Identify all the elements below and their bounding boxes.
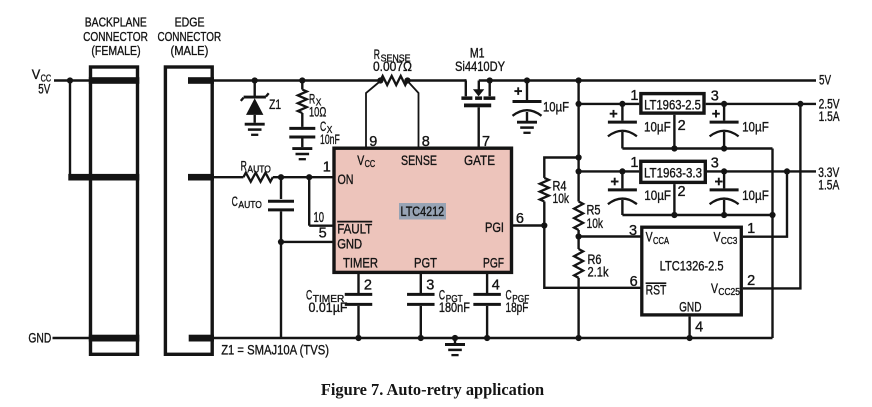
wire 5V rail mid <box>408 79 467 81</box>
wire CX-gnd <box>301 139 303 148</box>
svg-text:2: 2 <box>678 118 686 134</box>
svg-text:5V: 5V <box>819 71 831 87</box>
caption figure 7 <box>321 380 545 399</box>
backplane connector (female) label <box>83 15 148 59</box>
svg-text:ON: ON <box>338 171 354 187</box>
svg-text:0.01µF: 0.01µF <box>309 299 348 315</box>
svg-text:AUTO: AUTO <box>238 199 262 211</box>
svg-text:180nF: 180nF <box>439 299 470 315</box>
backplane connector pin GND <box>89 335 140 342</box>
resistor R4 <box>540 178 570 207</box>
wire pin5 down to ground rail <box>280 242 282 338</box>
svg-text:CONNECTOR: CONNECTOR <box>157 29 221 44</box>
svg-text:CC3: CC3 <box>721 235 738 247</box>
svg-text:BACKPLANE: BACKPLANE <box>85 15 147 30</box>
junction VCC3 tap <box>784 168 790 174</box>
U2 pin number 1 <box>630 88 638 104</box>
U2 pin number 3 <box>711 89 719 105</box>
svg-text:PGF: PGF <box>483 254 504 270</box>
svg-text:5: 5 <box>319 226 327 242</box>
svg-text:3: 3 <box>426 278 434 294</box>
wire RAUTO to ON pin 1 <box>273 176 334 178</box>
junction RSENSE right <box>404 77 410 83</box>
wire CAUTO lead <box>280 177 282 199</box>
U1 pin label PGI <box>485 219 504 235</box>
wire R4 to PGI <box>543 202 545 226</box>
junction R6 ground <box>576 335 582 341</box>
junction FAULT tie <box>306 174 312 180</box>
svg-text:4: 4 <box>695 320 703 336</box>
wire 5V to U2 pin 1 <box>579 103 640 105</box>
svg-text:1: 1 <box>630 88 638 104</box>
svg-text:RST: RST <box>646 282 667 298</box>
svg-text:2: 2 <box>747 273 755 289</box>
wire VCC input <box>54 79 90 81</box>
wire GND pin 5 <box>281 241 334 243</box>
junction M1 drain <box>487 77 493 83</box>
U1 pin number 5 <box>319 226 327 242</box>
comparator U4 LTC1326-2.5 body <box>642 227 742 315</box>
capacitor CPGF <box>473 287 529 316</box>
U4 pin label GND <box>679 298 701 314</box>
svg-text:10: 10 <box>314 210 325 226</box>
resistor R5 <box>574 202 604 232</box>
U1 pin number 3 <box>426 278 434 294</box>
U1 pin label GND <box>337 236 362 252</box>
wire CAUTO to GND pin 5 <box>280 211 282 242</box>
U1 pin label VCC <box>357 152 375 170</box>
svg-text:SENSE: SENSE <box>401 152 437 168</box>
U4 pin number 4 <box>695 320 703 336</box>
U4 pin number 6 <box>630 274 638 290</box>
svg-text:PGI: PGI <box>485 219 504 235</box>
svg-text:10µF: 10µF <box>644 187 671 203</box>
svg-text:R: R <box>241 157 247 173</box>
U1 pin number 9 <box>369 134 377 150</box>
node VCC label <box>32 66 52 96</box>
wire U4 VCC3 from 3.3V <box>743 171 787 236</box>
junction CPGT <box>418 335 424 341</box>
wire PGF pin 4 stub <box>486 272 488 293</box>
note Z1 type <box>221 341 329 357</box>
wire VCCA <box>579 235 641 237</box>
junction ground trunk top <box>769 212 775 218</box>
wire U4 VCC25 from 2.5V <box>743 104 800 289</box>
wire RX lead <box>301 81 303 90</box>
zener Z1 <box>241 81 281 123</box>
svg-text:10k: 10k <box>553 190 570 206</box>
junction C4 top <box>619 168 625 174</box>
svg-text:10k: 10k <box>587 215 604 231</box>
ground main <box>445 345 465 356</box>
junction RX top <box>299 77 305 83</box>
wire CTIMER to rail <box>357 306 359 338</box>
svg-text:2: 2 <box>364 278 372 294</box>
junction CPGF <box>484 335 490 341</box>
wire kelvin SENSE pin 8 <box>408 81 419 148</box>
capacitor CX <box>289 118 340 147</box>
U1 pin number 10 <box>314 210 325 226</box>
capacitor C4 10uF input <box>608 171 671 215</box>
resistor RAUTO <box>241 157 273 181</box>
junction PGI <box>541 222 547 228</box>
wire R4 top bend <box>544 158 578 178</box>
svg-text:18pF: 18pF <box>506 299 529 315</box>
wire 5V to U3 pin 1 <box>579 170 640 172</box>
wire U2 ground run <box>622 147 772 149</box>
U3 pin number 3 <box>711 156 719 172</box>
resistor RSENSE <box>373 46 412 85</box>
svg-text:GND: GND <box>337 236 362 252</box>
svg-text:CC: CC <box>365 158 376 170</box>
svg-text:GATE: GATE <box>464 152 495 168</box>
ground CX <box>292 149 312 160</box>
wire PGI to RST bend <box>544 226 641 288</box>
svg-text:1.5A: 1.5A <box>818 176 839 192</box>
node GND label <box>28 330 51 346</box>
svg-text:3: 3 <box>629 223 637 239</box>
svg-text:9: 9 <box>369 134 377 150</box>
svg-text:3: 3 <box>711 156 719 172</box>
wire U2 pin 2 stub <box>673 115 675 149</box>
junction C2 top <box>619 101 625 107</box>
junction U3 pin 2 gnd <box>671 212 677 218</box>
capacitor CTIMER <box>306 287 372 316</box>
wire 5V rail right <box>479 79 816 81</box>
svg-text:7: 7 <box>482 134 490 150</box>
U4 pin label RST <box>646 282 667 298</box>
svg-text:10nF: 10nF <box>320 131 340 147</box>
svg-text:1: 1 <box>747 221 755 237</box>
wire ground stem <box>454 338 456 345</box>
U1 pin label ON <box>338 171 354 187</box>
capacitor C3 10uF output <box>710 104 769 149</box>
wire ground trunk <box>771 149 773 339</box>
resistor R6 <box>574 249 609 280</box>
wire U3 pin 2 stub <box>673 184 675 215</box>
svg-text:3: 3 <box>711 89 719 105</box>
wire VCC loop down to lower pin <box>69 81 71 178</box>
U2 pin number 2 <box>678 118 686 134</box>
svg-text:10µF: 10µF <box>543 99 569 115</box>
U1 pin number 4 <box>492 278 500 294</box>
U3 pin number 2 <box>678 184 686 200</box>
transistor M1 Si4410DY <box>455 45 506 148</box>
svg-text:(MALE): (MALE) <box>171 43 209 58</box>
svg-text:V: V <box>711 280 718 296</box>
svg-text:CONNECTOR: CONNECTOR <box>83 29 148 44</box>
junction GND pin 5 <box>278 239 284 245</box>
svg-text:FAULT: FAULT <box>337 221 372 237</box>
wire FAULT pin 10 <box>309 177 334 226</box>
backplane connector pin VCC <box>89 77 140 84</box>
svg-text:1.5A: 1.5A <box>819 108 840 124</box>
edge connector pin VCC <box>188 77 214 84</box>
wire CPGT to rail <box>420 306 422 338</box>
svg-text:V: V <box>646 229 653 245</box>
wire R5 to node <box>577 230 579 249</box>
wire U4 pin 4 stub <box>688 317 690 338</box>
wire R6 to ground rail <box>577 278 579 338</box>
backplane connector J1 body <box>91 67 138 354</box>
svg-text:10µF: 10µF <box>742 119 769 135</box>
svg-text:LTC1326-2.5: LTC1326-2.5 <box>660 258 724 274</box>
U4 pin number 2 <box>747 273 755 289</box>
svg-text:6: 6 <box>630 274 638 290</box>
U1 pin label GATE <box>464 152 495 168</box>
capacitor CPGT <box>407 287 470 316</box>
node 5V label <box>819 71 831 87</box>
wire edge connector to RAUTO <box>213 176 243 178</box>
edge connector (male) label <box>157 15 221 59</box>
ground Z1 <box>245 124 265 135</box>
svg-text:GND: GND <box>28 330 51 346</box>
junction VCC25 tap <box>797 101 803 107</box>
junction U2 pin 2 gnd <box>671 145 677 151</box>
backplane connector pin sense <box>68 174 139 181</box>
U1 pin number 7 <box>482 134 490 150</box>
svg-text:Z1: Z1 <box>269 96 281 112</box>
ground C1 <box>517 122 537 133</box>
svg-text:V: V <box>357 152 364 168</box>
svg-text:Si4410DY: Si4410DY <box>455 58 506 74</box>
svg-text:5V: 5V <box>38 80 50 96</box>
junction Z1 top <box>252 77 258 83</box>
junction R4 top <box>576 154 582 160</box>
wire TIMER pin 2 stub <box>357 272 359 293</box>
wire PGT pin 3 stub <box>420 272 422 293</box>
U3 pin number 1 <box>630 155 638 171</box>
svg-text:GND: GND <box>679 298 701 314</box>
op-amp U1 LTC4212 body <box>334 148 512 272</box>
U1 pin label PGT <box>414 254 437 270</box>
junction feed reg3.3 <box>576 168 582 174</box>
U4 pin number 1 <box>747 221 755 237</box>
svg-text:2.1k: 2.1k <box>588 264 610 280</box>
U4 pin label VCC3 <box>714 229 738 247</box>
svg-text:TIMER: TIMER <box>343 254 378 270</box>
wire PGI pin 6 <box>512 224 545 226</box>
svg-text:Figure 7. Auto-retry applicati: Figure 7. Auto-retry application <box>321 380 545 399</box>
svg-text:0.007Ω: 0.007Ω <box>373 58 412 74</box>
svg-text:LT1963-3.3: LT1963-3.3 <box>644 165 702 181</box>
svg-text:10µF: 10µF <box>742 187 769 203</box>
junction CTIMER <box>355 335 361 341</box>
capacitor CAUTO <box>232 193 294 211</box>
svg-text:CCA: CCA <box>653 235 669 247</box>
regulator U3 LT1963-3.3 <box>641 161 706 182</box>
junction CAUTO top <box>278 174 284 180</box>
wire U2 output <box>706 103 816 105</box>
svg-text:Z1 = SMAJ10A (TVS): Z1 = SMAJ10A (TVS) <box>221 341 329 357</box>
svg-text:4: 4 <box>492 278 500 294</box>
wire GND input <box>53 337 91 339</box>
wire 5V rail left <box>213 79 380 81</box>
svg-text:10µF: 10µF <box>644 119 671 135</box>
junction RSENSE left <box>377 77 383 83</box>
node 2.5V label <box>819 95 840 124</box>
svg-text:CC25: CC25 <box>718 286 740 298</box>
U1 pin label SENSE <box>401 152 437 168</box>
U1 pin label TIMER <box>343 254 378 270</box>
junction U4 ground <box>687 335 693 341</box>
junction VCC <box>67 77 73 83</box>
svg-text:2: 2 <box>678 184 686 200</box>
svg-text:LT1963-2.5: LT1963-2.5 <box>644 97 701 113</box>
U1 pin number 2 <box>364 278 372 294</box>
junction 5V feed <box>576 77 582 83</box>
U1 pin number 1 <box>323 160 331 176</box>
regulator U2 LT1963-2.5 <box>641 94 704 114</box>
wire U3 ground run <box>622 214 772 216</box>
U1 pin number 8 <box>422 134 430 150</box>
junction VCCA node <box>576 233 582 239</box>
edge connector pin GND <box>189 335 214 342</box>
capacitor C1 10uF <box>513 81 570 123</box>
resistor RX <box>298 90 327 120</box>
wire 5V feed down <box>577 81 579 202</box>
U4 pin label VCCA <box>646 229 669 247</box>
wire RX-CX <box>301 113 303 127</box>
U1 name highlight <box>399 203 446 220</box>
node 3.3V label <box>818 164 839 193</box>
wire kelvin VCC pin 9 <box>366 81 380 148</box>
junction C3 top <box>721 101 727 107</box>
junction C5 top <box>721 168 727 174</box>
svg-text:(FEMALE): (FEMALE) <box>91 43 140 58</box>
svg-text:PGT: PGT <box>414 254 437 270</box>
svg-text:1: 1 <box>630 155 638 171</box>
capacitor C5 10uF output <box>710 171 769 215</box>
svg-text:V: V <box>714 229 721 245</box>
junction C5 ground <box>721 212 727 218</box>
U1 pin label PGF <box>483 254 504 270</box>
wire U3 output <box>707 170 816 172</box>
svg-text:8: 8 <box>422 134 430 150</box>
U1 pin number 6 <box>516 211 524 227</box>
junction C3 ground <box>721 145 727 151</box>
svg-text:EDGE: EDGE <box>175 15 205 30</box>
svg-text:1: 1 <box>323 160 331 176</box>
edge connector J2 body <box>165 67 212 354</box>
capacitor C2 10uF input <box>608 104 671 149</box>
junction C1 top <box>524 77 530 83</box>
junction ground symbol <box>452 335 458 341</box>
U1 pin label FAULT <box>337 221 372 237</box>
svg-text:LTC4212: LTC4212 <box>401 203 445 219</box>
U4 pin label VCC25 <box>711 280 740 298</box>
junction feed reg2.5 <box>576 101 582 107</box>
wire CPGF to rail <box>486 306 488 338</box>
edge connector pin sense <box>188 174 214 181</box>
wire ground rail <box>212 337 772 340</box>
svg-text:AUTO: AUTO <box>247 163 271 175</box>
U4 pin number 3 <box>629 223 637 239</box>
svg-text:C: C <box>232 193 238 209</box>
